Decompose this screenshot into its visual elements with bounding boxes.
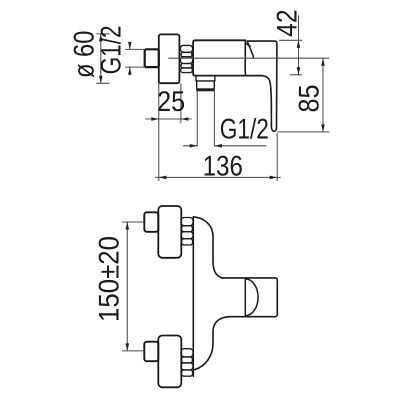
dim ø60 line	[100, 34, 102, 83]
connection nut (top view, scalloped)	[180, 45, 192, 72]
dim ø60 witness ticks	[97, 34, 109, 83]
body lower S-curve (plan)	[195, 317, 229, 370]
inlet axis ticks (plan)	[122, 222, 144, 351]
cartridge joint vertical	[244, 40, 246, 75]
dim 150±20 arrows	[126, 222, 130, 351]
dim 150±20 line	[126, 222, 128, 351]
dim 85 arrows	[321, 58, 325, 65]
flange disc ø60 (top view, side)	[159, 34, 180, 83]
left inlet nut (plan)	[181, 218, 193, 246]
wall stub G1/2 (top view)	[145, 49, 159, 67]
dim 25 arrows	[151, 117, 159, 121]
dim ø60 arrows	[99, 34, 103, 42]
svg-text:42: 42	[271, 9, 303, 36]
dim 42 witness ticks	[280, 40, 302, 75]
svg-text:G1/2: G1/2	[96, 25, 128, 74]
knob right edge (plan)	[276, 280, 278, 314]
arrowheads, top view	[99, 34, 325, 179]
svg-text:25: 25	[157, 86, 185, 118]
lever neck arc	[245, 42, 250, 47]
dim G1/2 arrows	[128, 42, 132, 50]
body upper S-curve (plan)	[193, 217, 222, 278]
blade back edge with body bottom arc	[262, 76, 274, 132]
lever neck diagonal	[247, 41, 253, 58]
mixer body (top view)	[193, 40, 262, 75]
dim G1/2 witness ticks	[126, 49, 145, 67]
extension line flange left	[158, 84, 160, 181]
knob base vertical (plan)	[244, 278, 246, 317]
dim 136 line	[155, 176, 280, 178]
dim G1/2 line segments	[129, 43, 131, 75]
dim 85 line	[322, 58, 324, 132]
dim G1/2 outlet line segments	[184, 145, 267, 147]
spout band top edge (plan)	[222, 278, 278, 280]
outlet extension lines	[197, 92, 214, 147]
svg-text:G1/2: G1/2	[220, 114, 269, 146]
spout band bottom edge (plan)	[229, 314, 278, 316]
knob end-cap ellipse arc (plan)	[245, 279, 258, 316]
dim 25 line	[146, 118, 192, 120]
right inlet nut (plan)	[181, 349, 193, 376]
lever top edge and blade front edge	[248, 41, 277, 131]
left inlet stub (plan)	[144, 212, 158, 232]
svg-text:85: 85	[294, 85, 326, 113]
dim 42 line	[298, 16, 300, 75]
right inlet flange (plan)	[158, 336, 181, 388]
svg-text:136: 136	[203, 150, 243, 182]
axis / centre line (y=58.2)	[169, 57, 329, 59]
dim G1/2 outlet arrows	[190, 144, 198, 148]
shower outlet stub (below body)	[196, 76, 215, 89]
dim 42 arrows	[297, 40, 301, 48]
extension line flange right	[180, 84, 182, 123]
extension line blade tip	[276, 134, 278, 181]
dim 136 arrows	[159, 176, 167, 180]
body back edge (plan, wall side)	[192, 217, 194, 376]
left inlet flange (plan)	[158, 206, 181, 258]
dim 85 bottom witness line	[278, 131, 329, 133]
right inlet stub (plan)	[144, 342, 158, 362]
outlet thread dark band	[196, 88, 214, 91]
svg-text:150±20: 150±20	[94, 236, 126, 322]
